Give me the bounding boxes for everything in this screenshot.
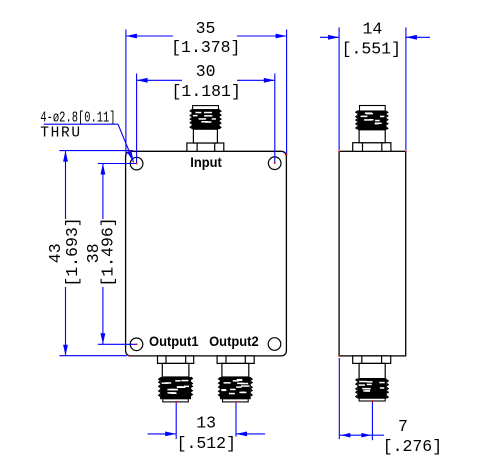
svg-text:Input: Input xyxy=(190,155,222,170)
output1 connector flange xyxy=(158,356,194,364)
input connector neck xyxy=(193,129,217,143)
svg-text:THRU: THRU xyxy=(40,126,82,142)
dim 38 dimension line with arrows xyxy=(101,164,106,345)
svg-text:7: 7 xyxy=(398,417,408,436)
output2 connector threaded coupling xyxy=(218,377,254,399)
side view body outline xyxy=(339,151,406,356)
input connector end cap xyxy=(193,106,219,110)
mounting hole top-right xyxy=(268,157,281,170)
leader note 4-dia2.8[0.11] THRU text xyxy=(40,109,115,142)
output2 connector flange xyxy=(217,356,254,364)
dim 43 dimension line with arrows xyxy=(63,151,68,356)
svg-text:13: 13 xyxy=(196,413,216,432)
side view top connector threaded coupling xyxy=(355,110,389,130)
dim 30 extension lines xyxy=(137,74,275,164)
svg-text:[1.378]: [1.378] xyxy=(171,38,240,57)
dim 14 dimension line with arrows xyxy=(320,35,430,40)
svg-text:[.551]: [.551] xyxy=(342,40,401,59)
dim 7 dimension line with arrows xyxy=(339,433,384,438)
svg-text:[1.181]: [1.181] xyxy=(172,82,241,101)
output2 connector neck xyxy=(222,363,249,377)
svg-text:4-ø2.8[0.11]: 4-ø2.8[0.11] xyxy=(40,109,115,126)
side view bottom connector end cap xyxy=(359,398,385,401)
side view bottom connector threaded coupling xyxy=(355,378,389,399)
dim 35 dimension line with arrows xyxy=(126,34,287,39)
dim 13 dimension line with arrows xyxy=(148,432,266,437)
svg-text:Output2: Output2 xyxy=(209,333,259,349)
mounting hole bottom-left xyxy=(130,338,143,351)
dim 14 extension lines xyxy=(339,27,406,150)
svg-text:[1.693]: [1.693] xyxy=(63,217,82,286)
output2 connector end cap xyxy=(223,399,249,402)
output1 connector end cap xyxy=(163,399,189,402)
dim 13 extension lines (connector centerlines) xyxy=(176,402,236,439)
svg-text:[1.496]: [1.496] xyxy=(99,217,118,286)
svg-text:Output1: Output1 xyxy=(149,333,199,349)
dim 35 extension lines xyxy=(126,30,287,155)
leader line with arrow to top-left hole xyxy=(44,124,134,162)
svg-text:35: 35 xyxy=(196,19,216,38)
dim 38 extension lines xyxy=(98,164,137,345)
side view top connector end cap xyxy=(360,106,386,112)
left view body outline xyxy=(126,151,287,356)
dim 30 dimension line with arrows xyxy=(137,78,275,83)
side view top connector neck xyxy=(359,130,385,143)
svg-text:30: 30 xyxy=(196,62,216,81)
svg-text:14: 14 xyxy=(362,20,382,39)
side view bottom connector neck xyxy=(359,363,385,378)
mounting hole top-left xyxy=(130,157,143,170)
mounting hole bottom-right xyxy=(268,338,281,351)
input connector flange xyxy=(187,143,224,151)
side view bottom connector flange xyxy=(353,356,391,364)
input connector threaded coupling xyxy=(189,109,222,129)
output1 connector neck xyxy=(162,363,189,377)
svg-text:[.512]: [.512] xyxy=(177,434,236,453)
red defpoint dots xyxy=(129,151,407,403)
dim 43 extension lines xyxy=(59,151,133,356)
svg-text:[.276]: [.276] xyxy=(383,437,442,456)
side view top connector flange xyxy=(353,143,391,152)
dim 7 extension line and centerline xyxy=(339,358,372,440)
output1 connector threaded coupling xyxy=(158,377,194,400)
